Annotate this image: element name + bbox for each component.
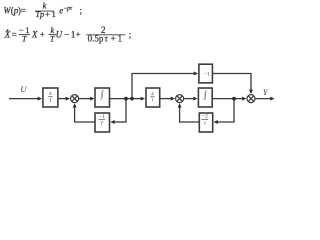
arrow left into -1/T block [110,120,114,124]
wire integrator2 to junction3 [213,98,244,100]
wire branch down from node A [125,99,127,122]
node A dot [124,97,128,101]
arrow into integrator1 [90,97,94,101]
arrow into block k/T [38,97,42,101]
svg-text:=: = [21,6,26,16]
summing junction 2 [176,95,184,103]
integrator U2 [198,88,212,107]
wire into -2/tau block [218,121,235,123]
wire U input [9,98,39,100]
svg-text:;: ; [80,6,83,16]
wire block1 to junction1 [59,98,68,100]
svg-text:+: + [111,34,116,44]
block -1 [199,64,213,83]
arrow into integrator2 [193,97,197,101]
svg-text:X: X [4,30,11,40]
arrow into junction1 [66,97,70,101]
wire into -1/T block [114,121,127,123]
equation W(p) [4,1,83,19]
arrow up into junction2 [178,103,182,107]
summing junction 1 [71,95,79,103]
wire -1 block out, corner, down to junction3 [213,74,251,92]
block -1/T [95,113,110,132]
svg-text:1: 1 [52,10,56,19]
wire -2/tau out to under junction2 [180,106,199,122]
svg-text:+: + [45,10,50,19]
wire junction1 to integrator1 [79,98,92,100]
svg-text:−1: −1 [99,114,105,120]
svg-text:=: = [12,30,17,40]
wire branch up from node B [131,74,133,99]
wire junction2 to integrator2 [184,98,194,100]
arrow up into junction1 [73,103,77,107]
svg-text:−2: −2 [202,114,208,120]
svg-text:e: e [59,6,63,16]
arrowheads [38,72,275,125]
arrow into -1 block (top path) [194,72,198,76]
svg-text:+: + [76,30,81,40]
arrow down into junction3 [249,90,253,94]
wire -1/T out to under junction1 [75,106,95,122]
svg-text:U: U [56,30,63,40]
diagram [9,74,272,123]
svg-text:X: X [31,30,38,40]
arrow into block 4/tau [141,97,145,101]
wire 4/tau to junction2 [161,98,173,100]
svg-text:;: ; [129,30,132,40]
summing junction 3 [247,95,255,103]
arrow into junction2 [171,97,175,101]
svg-text:Tp: Tp [35,10,44,19]
svg-text:−1: −1 [204,72,210,78]
block 4/tau [146,88,160,107]
svg-text:+: + [40,30,45,40]
wire branch down from node C [233,99,235,122]
node B dot [130,97,134,101]
wire integrator1 to block 4/tau [110,98,143,100]
node C dot [232,97,236,101]
equation X-dot [4,25,132,44]
svg-text:0.5p: 0.5p [88,34,104,44]
arrow into junction3 [242,97,246,101]
svg-text:1: 1 [118,34,123,44]
block -2/tau [199,113,212,132]
arrow left into -2/tau block [214,120,218,124]
wire output Y [255,98,271,100]
arrow output [270,97,274,101]
svg-text:−: − [64,30,69,40]
integrator U1 [95,88,110,107]
wire top to -1 block [131,73,195,75]
block k/T [43,88,58,107]
svg-text:U: U [20,84,27,94]
